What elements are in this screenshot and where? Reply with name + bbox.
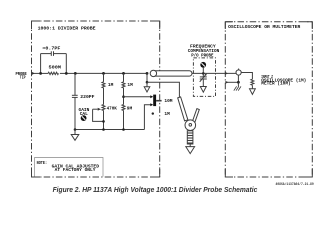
node: junction dots on main line <box>39 72 148 75</box>
arrowhead lower plug contact <box>150 103 153 106</box>
wire: coax to scope <box>192 72 236 74</box>
label: GAIN CAL <box>79 107 90 117</box>
wire: shield entry into scope <box>226 81 239 83</box>
resistor R6 input Z <box>251 79 254 85</box>
svg-text:4086A/1137A04/7-21-89: 4086A/1137A04/7-21-89 <box>276 182 314 186</box>
svg-text:10M: 10M <box>164 98 172 104</box>
wire: main line to 1M branches <box>75 72 147 74</box>
output plug bar <box>153 95 156 107</box>
wire: rail up to plug lower contact <box>144 105 151 130</box>
NOTE box <box>35 158 103 177</box>
scope box corner brackets <box>225 22 312 177</box>
wire: bottom rail <box>75 129 144 131</box>
capacitor C2 220PF branch: upper wire <box>74 73 76 95</box>
wire: shield lead to alligator clip <box>147 82 179 97</box>
arrowhead upper plug contact <box>150 95 153 98</box>
wire: 500M to node B <box>60 72 75 74</box>
wire: coax drop from main line <box>146 73 148 82</box>
wire: jack to input resistor <box>241 73 252 80</box>
screw adjust (freq comp) <box>202 68 204 73</box>
resistor R4 1M (right divider) <box>123 73 125 82</box>
resistor R5 9M <box>122 105 125 111</box>
input jack J1 (scope) <box>236 70 241 75</box>
svg-text:1000:1 DIVIDER PROBE: 1000:1 DIVIDER PROBE <box>38 26 96 32</box>
capacitor C2 plates <box>72 94 78 96</box>
svg-text:≈0.7PF: ≈0.7PF <box>42 46 60 52</box>
wire: cap branch top left <box>41 53 52 55</box>
ground (open arrow) below clip <box>189 144 191 147</box>
arrowhead: signal entering scope <box>225 72 228 75</box>
probe box corner brackets <box>32 21 160 177</box>
wire: cap branch right riser <box>65 54 67 74</box>
capacitor C1 plates <box>50 51 52 56</box>
resistor R2 1M (left divider) <box>103 73 105 82</box>
node: scope ground node <box>237 81 240 84</box>
svg-text:1M: 1M <box>164 111 170 117</box>
capacitor C1 ~0.7PF branch: left riser <box>40 54 42 74</box>
svg-text:METER (10M): METER (10M) <box>261 81 290 87</box>
wire: cap branch top right <box>54 53 67 55</box>
node: tap junction on right divider <box>122 95 125 98</box>
alligator clip: pivot <box>185 120 196 131</box>
svg-text:1M: 1M <box>108 82 114 88</box>
svg-text:500M: 500M <box>49 65 62 71</box>
resistor R1 500M (zigzag on main line) <box>48 72 58 74</box>
oscilloscope enclosure box (dash-dot) <box>225 22 312 177</box>
svg-text:NOTE:: NOTE: <box>37 160 48 166</box>
trimmer capacitor C3 (freq compensation) <box>202 72 205 75</box>
arrowhead at probe tip <box>32 72 35 75</box>
screw adjust (gain cal) <box>81 115 87 121</box>
wire: jack bottom to shield node <box>237 75 239 82</box>
svg-text:220PF: 220PF <box>80 94 95 100</box>
wire: main line node A to 500M <box>41 72 49 74</box>
ground (open arrow) at shield node <box>146 82 148 87</box>
alligator clip: boot with ridges <box>187 131 193 144</box>
potentiometer R3 470K <box>102 105 105 111</box>
coax cable W1 <box>153 71 192 76</box>
svg-text:9M: 9M <box>127 106 133 112</box>
ground (open arrow) scope input <box>250 89 256 95</box>
svg-text:OSCILLOSCOPE OR MULTIMETER: OSCILLOSCOPE OR MULTIMETER <box>228 24 301 30</box>
svg-text:Figure 2. HP 1137A High Voltag: Figure 2. HP 1137A High Voltage 1000:1 D… <box>53 187 258 194</box>
ground (open arrow) below rail <box>74 130 76 135</box>
chassis ground (scope) <box>237 82 239 86</box>
frequency compensation box (dashed) <box>193 58 215 97</box>
node: shield node dot <box>146 81 149 84</box>
svg-text:TIP: TIP <box>20 75 26 81</box>
output plug tip stub (10M position) <box>156 100 162 102</box>
svg-text:1M: 1M <box>127 82 133 88</box>
svg-text:470K: 470K <box>107 106 118 112</box>
svg-text:AT FACTORY ONLY: AT FACTORY ONLY <box>55 167 96 173</box>
ground (open arrow) freq comp <box>200 87 206 93</box>
wire: 220PF to bottom rail <box>74 97 76 129</box>
alligator clip: left jaw <box>178 97 188 121</box>
alligator clip: right jaw <box>192 109 199 123</box>
wire: probe tip entry <box>32 72 41 74</box>
node: rail junction dots <box>74 128 125 131</box>
node: 1M position bullet <box>152 112 154 114</box>
probe enclosure box (dash-dot) <box>32 21 160 177</box>
svg-text:P/O PROBE: P/O PROBE <box>191 53 214 59</box>
wire: tap to output plug upper contact <box>124 96 152 98</box>
wiper of 470K: arrow and trace to lower node <box>93 108 98 110</box>
